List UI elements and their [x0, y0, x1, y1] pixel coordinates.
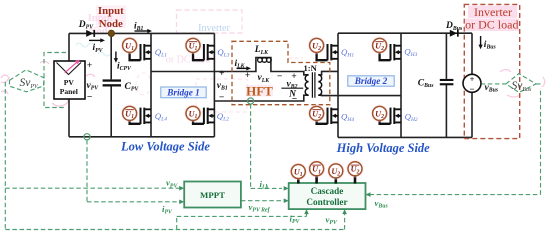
svg-text:QH3: QH3: [404, 46, 417, 58]
svg-text:+: +: [87, 61, 92, 71]
svg-text:Controller: Controller: [306, 197, 347, 207]
svg-text:QL1: QL1: [155, 47, 167, 59]
ghost pink squiggles near SvPV: [1, 61, 95, 106]
PV panel: [54, 60, 85, 99]
svg-text:SvPV: SvPV: [20, 77, 40, 90]
SvPV dashed diamond: [10, 70, 45, 92]
wire bridge1 right leg: [213, 33, 215, 136]
circled U2 above controller: [327, 162, 345, 180]
inverter/DC load dashed box: [464, 4, 519, 138]
ghost pink dash near 1:N: [288, 57, 303, 59]
tap circle on bridge1 bottom rail: [84, 134, 90, 140]
svg-text:SvBus: SvBus: [512, 80, 533, 93]
green labels: [162, 178, 388, 226]
ghost pink squiggles near SvBus: [500, 70, 545, 98]
bridge1 label box: [161, 87, 206, 98]
tap circle on AC link bottom wire: [248, 98, 254, 104]
arrow iCPV: [115, 52, 117, 60]
wire AC link top with inductor hump: [151, 58, 309, 75]
bridge2 label box: [348, 76, 394, 86]
arrow iPV up into controller bottom: [304, 209, 309, 214]
diode DBus: [450, 30, 459, 37]
vBus source circle: [463, 74, 481, 94]
arrow iBus: [480, 36, 482, 46]
labels Q blue: [155, 46, 418, 123]
transistor QL3 with gate label U1-bar: [184, 37, 214, 61]
svg-text:High Voltage Side: High Voltage Side: [336, 141, 431, 155]
arrow vBus into controller: [366, 192, 371, 197]
svg-text:vLK: vLK: [258, 73, 271, 84]
wire bridge2 top rail: [338, 32, 472, 34]
arrow vPVRef into controller: [284, 198, 289, 203]
svg-text:−: −: [469, 84, 474, 94]
svg-text:Inverter: Inverter: [198, 23, 230, 34]
arrow iPV: [89, 39, 102, 41]
transistor QL1 with gate label U1: [121, 37, 151, 61]
svg-text:Low Voltage Side: Low Voltage Side: [120, 139, 210, 153]
svg-text:iBus: iBus: [484, 40, 497, 51]
svg-text:CPV: CPV: [125, 82, 140, 93]
diode DPV: [86, 30, 95, 37]
svg-text:+: +: [470, 75, 475, 84]
wire SvBus link: [482, 83, 541, 85]
transformer HFT: [305, 72, 321, 97]
svg-text:−: −: [87, 93, 93, 103]
svg-text:iPV: iPV: [93, 43, 104, 54]
svg-text:QH1: QH1: [341, 47, 354, 59]
HFT dashed box: [232, 41, 330, 104]
svg-text:iPV: iPV: [290, 213, 301, 225]
arrow iLK: [237, 67, 248, 69]
ghost pink Input Node text: [88, 6, 126, 37]
svg-text:Bridge 2: Bridge 2: [354, 76, 388, 86]
current arrows black: [89, 29, 483, 71]
wire CBus leg: [445, 33, 447, 137]
circled U1-bar above controller: [308, 160, 326, 178]
svg-text:−: −: [292, 95, 298, 105]
wire transformer secondary bottom: [318, 94, 401, 96]
svg-text:vPV: vPV: [87, 81, 100, 92]
HFT label: [246, 85, 273, 97]
svg-text:vPV Ref: vPV Ref: [249, 202, 271, 214]
wire left vertical to PV panel: [68, 33, 70, 136]
svg-text:−: −: [277, 72, 283, 82]
svg-text:vBus: vBus: [375, 198, 389, 210]
wire bridge1 left leg: [150, 33, 152, 136]
svg-text:vPV: vPV: [166, 178, 178, 190]
svg-text:MPPT: MPPT: [200, 190, 225, 200]
wire vPV branch to controller bottom: [344, 212, 346, 230]
label Input Node: [98, 5, 124, 30]
svg-text:+: +: [245, 71, 250, 81]
wire bottom feedback line: [5, 229, 344, 231]
svg-text:Cascade: Cascade: [311, 186, 344, 196]
GHOSTS: [1, 6, 545, 113]
svg-text:QH2: QH2: [405, 112, 418, 124]
svg-text:QL4: QL4: [155, 111, 167, 123]
controller gate signal stubs: [298, 175, 355, 183]
transistor QL2 with gate label U1: [184, 105, 214, 124]
arrow iLk into controller: [284, 186, 289, 191]
arrow iB1: [135, 30, 149, 32]
svg-text:Node: Node: [99, 18, 123, 30]
arrow iPV into MPPT: [179, 200, 184, 205]
svg-text:PV: PV: [64, 78, 75, 87]
svg-text:vPV: vPV: [326, 214, 338, 226]
wire sense iPV vertical from rail tap: [87, 140, 180, 202]
ghost pink dashed box near vB1: [196, 79, 247, 112]
node dot (input node): [108, 30, 115, 37]
MOSFETS inserted below: [121, 37, 401, 124]
svg-text:1:N: 1:N: [304, 63, 318, 73]
wire sense iLk vertical from link tap: [251, 104, 282, 188]
svg-text:QH4: QH4: [341, 112, 354, 124]
transistor QH3 with gate label U2-bar: [371, 37, 401, 61]
svg-text:QL3: QL3: [217, 47, 229, 59]
GREEN: [5, 53, 540, 230]
wire sense vPV left vertical: [4, 82, 6, 230]
circled U1 above controller: [290, 163, 308, 181]
MPPT box: [184, 182, 241, 208]
svg-text:CBus: CBus: [418, 79, 434, 90]
svg-text:Panel: Panel: [60, 87, 78, 96]
capacitor CPV: [103, 79, 121, 86]
circled U2-bar above controller: [346, 160, 364, 178]
inductor LLK coils: [258, 58, 272, 63]
svg-text:Bridge 1: Bridge 1: [166, 88, 199, 98]
svg-text:−: −: [219, 93, 225, 103]
wire vBus sense to controller: [370, 88, 541, 195]
wire AC link bottom to transformer primary: [214, 95, 308, 101]
wire SvPV taps on PV terminals: [44, 53, 66, 108]
wire input node to CPV leg: [110, 33, 112, 136]
wire vPVRef MPPT to controller: [241, 200, 282, 202]
transistor QL4 with gate label U1-bar: [121, 105, 151, 124]
svg-text:QL2: QL2: [217, 111, 229, 123]
svg-text:iLk: iLk: [260, 179, 269, 191]
wire load vertical: [471, 33, 473, 137]
svg-text:HFT: HFT: [246, 84, 273, 99]
svg-text:or DC load: or DC load: [465, 18, 518, 32]
wire bridge1 bottom rail: [69, 136, 214, 138]
transistor QH1 with gate label U2: [308, 37, 338, 61]
wire bridge2 bottom rail: [338, 136, 472, 138]
SvBus dashed diamond: [506, 74, 536, 93]
transistor QH2 with gate label U2: [371, 105, 401, 124]
svg-text:Input: Input: [98, 5, 124, 17]
wire bridge2 right leg: [400, 33, 402, 137]
wire sense vPV to MPPT: [5, 187, 180, 189]
wire transformer secondary top: [318, 71, 338, 74]
green arrowheads: [179, 186, 370, 214]
svg-text:LLK: LLK: [254, 45, 269, 56]
svg-text:iCPV: iCPV: [117, 61, 132, 72]
svg-text:vB1: vB1: [217, 81, 228, 92]
svg-text:DBus: DBus: [445, 21, 463, 32]
ghost pink dashed box (inverter echo): [177, 10, 243, 33]
capacitor CBus: [440, 79, 454, 85]
Cascade Controller box: [289, 183, 366, 209]
svg-text:iPV: iPV: [162, 204, 173, 216]
wire iPV branch to controller bottom: [177, 212, 307, 230]
ghost pink dashed ellipse near bridge1: [136, 73, 151, 95]
svg-text:+: +: [219, 69, 224, 79]
arrow vPV into MPPT: [179, 186, 184, 191]
wire bridge2 left leg: [337, 33, 339, 137]
transistor QH4 with gate label U2-bar: [308, 105, 338, 124]
svg-text:+: +: [291, 72, 296, 82]
wire top left rail with diode span: [69, 32, 214, 34]
arrow vPV up into controller bottom: [342, 209, 347, 214]
ghost cyan squiggles near iPV: [76, 43, 110, 56]
